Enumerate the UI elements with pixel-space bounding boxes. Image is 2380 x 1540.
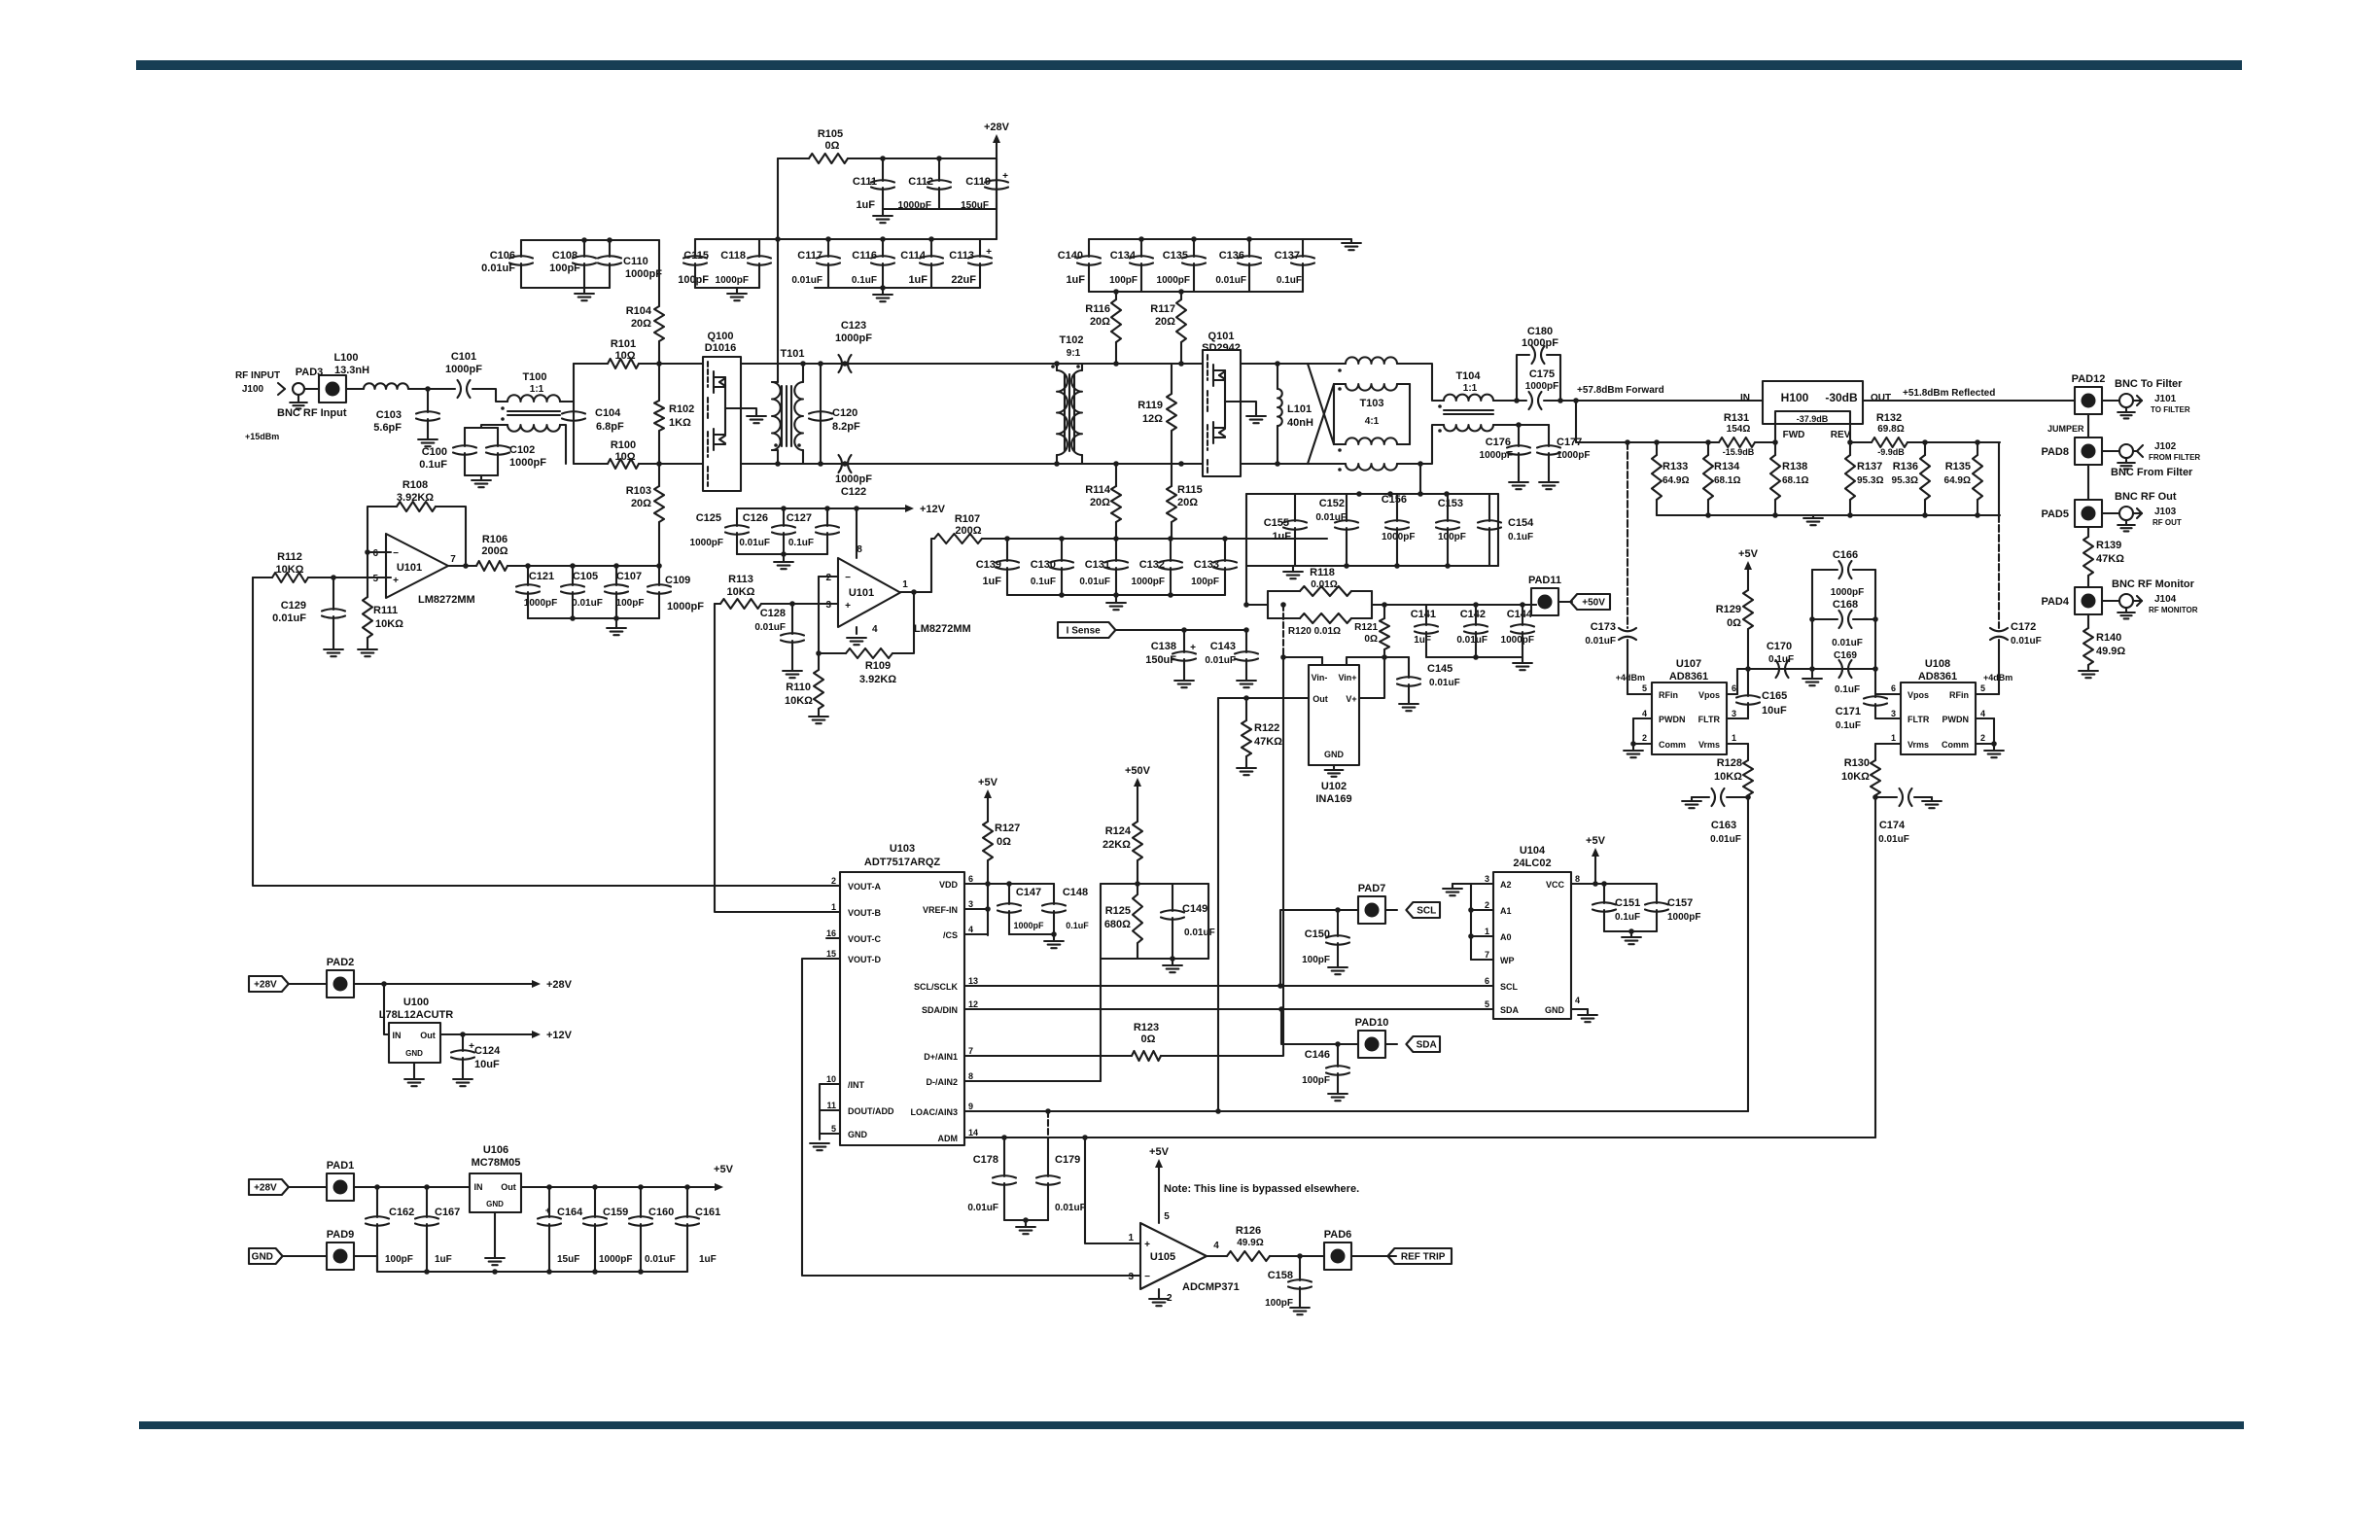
pad PAD7 with SCL flag — [1280, 910, 1358, 986]
svg-text:R104: R104 — [626, 305, 652, 317]
svg-text:20Ω: 20Ω — [1090, 497, 1110, 508]
svg-text:GND: GND — [848, 1130, 868, 1139]
svg-text:+4dBm: +4dBm — [1616, 673, 1645, 682]
svg-text:BNC RF Out: BNC RF Out — [2115, 491, 2177, 503]
svg-text:49.9Ω: 49.9Ω — [2096, 646, 2125, 657]
svg-text:SCL: SCL — [1417, 906, 1436, 917]
svg-text:0.1uF: 0.1uF — [1836, 720, 1861, 731]
svg-text:SCL/SCLK: SCL/SCLK — [914, 982, 959, 992]
wire — [354, 983, 384, 985]
svg-text:R116: R116 — [1085, 303, 1110, 315]
svg-text:6: 6 — [372, 548, 378, 559]
wire main 5V reg line — [354, 1186, 470, 1188]
svg-text:+50V: +50V — [1582, 598, 1605, 609]
svg-text:INA169: INA169 — [1315, 793, 1351, 805]
wire — [1372, 604, 1426, 606]
pad PAD11 — [1531, 604, 1536, 606]
svg-text:+: + — [393, 576, 399, 586]
svg-text:A1: A1 — [1500, 906, 1512, 916]
svg-text:1000pF: 1000pF — [1525, 381, 1558, 392]
svg-text:JUMPER: JUMPER — [2047, 424, 2084, 434]
ground — [1350, 239, 1352, 243]
svg-text:R100: R100 — [611, 439, 636, 451]
svg-text:C153: C153 — [1438, 498, 1463, 509]
svg-text:0Ω: 0Ω — [825, 140, 840, 152]
svg-text:1000pF: 1000pF — [667, 601, 704, 612]
svg-text:C172: C172 — [2011, 621, 2036, 633]
svg-text:-9.9dB: -9.9dB — [1877, 447, 1905, 457]
svg-text:47KΩ: 47KΩ — [2096, 553, 2124, 565]
power +28V arrow — [996, 138, 997, 158]
svg-text:5: 5 — [1485, 999, 1489, 1009]
svg-text:1000pF: 1000pF — [1667, 912, 1700, 923]
svg-text:0Ω: 0Ω — [1141, 1033, 1156, 1045]
wire +50V sense line — [1245, 566, 1247, 605]
svg-text:C101: C101 — [451, 351, 476, 363]
svg-text:OUT: OUT — [1871, 393, 1891, 403]
svg-text:1uF: 1uF — [856, 199, 875, 211]
svg-text:20Ω: 20Ω — [1155, 316, 1175, 328]
svg-text:13: 13 — [968, 976, 978, 986]
svg-text:6: 6 — [1732, 683, 1736, 693]
svg-text:BNC RF Input: BNC RF Input — [277, 407, 347, 419]
svg-text:0.1uF: 0.1uF — [419, 459, 447, 471]
svg-text:64.9Ω: 64.9Ω — [1944, 475, 1971, 486]
svg-text:15uF: 15uF — [557, 1254, 579, 1265]
svg-text:0.1uF: 0.1uF — [1031, 577, 1056, 587]
svg-text:C161: C161 — [695, 1207, 720, 1218]
svg-text:680Ω: 680Ω — [1104, 919, 1131, 930]
ground — [1053, 934, 1055, 941]
svg-text:0.01uF: 0.01uF — [272, 612, 306, 624]
svg-text:VREF-IN: VREF-IN — [923, 905, 958, 915]
svg-text:D+/AIN1: D+/AIN1 — [924, 1052, 958, 1062]
svg-text:47KΩ: 47KΩ — [1254, 736, 1282, 748]
svg-text:C147: C147 — [1016, 887, 1041, 898]
ground — [736, 288, 738, 294]
svg-text:Vrms: Vrms — [1698, 740, 1720, 750]
svg-text:ADT7517ARQZ: ADT7517ARQZ — [864, 857, 941, 868]
wire VREF-IN — [964, 908, 988, 910]
svg-text:ADCMP371: ADCMP371 — [1182, 1281, 1240, 1293]
ground — [1292, 566, 1294, 572]
svg-text:C152: C152 — [1319, 498, 1345, 509]
svg-text:C180: C180 — [1527, 326, 1553, 337]
svg-text:L78L12ACUTR: L78L12ACUTR — [379, 1009, 453, 1021]
wire /CS — [964, 933, 988, 935]
svg-text:DOUT/ADD: DOUT/ADD — [848, 1106, 894, 1116]
svg-text:0.01uF: 0.01uF — [1456, 635, 1487, 646]
svg-text:0.01uF: 0.01uF — [1710, 834, 1741, 845]
svg-text:+: + — [1144, 1240, 1150, 1250]
svg-text:1: 1 — [831, 902, 836, 912]
svg-text:C169: C169 — [1834, 650, 1857, 661]
svg-text:95.3Ω: 95.3Ω — [1892, 475, 1918, 486]
svg-text:3: 3 — [1732, 709, 1736, 718]
svg-text:C149: C149 — [1182, 903, 1207, 915]
wire main line to PAD12 — [1863, 400, 2075, 402]
power +5V comparator — [1158, 1163, 1160, 1223]
svg-text:C171: C171 — [1836, 706, 1861, 717]
svg-text:C123: C123 — [841, 320, 866, 332]
wire PWDN Comm tie to ground — [1633, 717, 1652, 719]
svg-text:RF INPUT: RF INPUT — [235, 370, 280, 381]
wire feedback to pin6 — [367, 551, 386, 553]
svg-text:U108: U108 — [1925, 658, 1950, 670]
svg-text:MC78M05: MC78M05 — [472, 1157, 521, 1169]
svg-text:C157: C157 — [1667, 897, 1693, 909]
ground — [1522, 657, 1523, 663]
svg-text:GND: GND — [486, 1200, 504, 1208]
svg-text:C121: C121 — [529, 571, 554, 582]
svg-text:8: 8 — [968, 1071, 973, 1081]
svg-text:C143: C143 — [1210, 641, 1236, 652]
power +5V VCC — [1571, 883, 1657, 885]
svg-text:4: 4 — [872, 624, 878, 635]
svg-text:3: 3 — [1128, 1272, 1134, 1282]
wire FLTR U108 — [1875, 717, 1901, 719]
svg-text:VOUT-C: VOUT-C — [848, 934, 882, 944]
svg-text:+5V: +5V — [1738, 548, 1759, 560]
svg-text:64.9Ω: 64.9Ω — [1662, 475, 1689, 486]
svg-text:SDA: SDA — [1500, 1005, 1520, 1015]
svg-text:Out: Out — [501, 1182, 516, 1192]
svg-text:PAD10: PAD10 — [1355, 1017, 1389, 1029]
svg-text:C129: C129 — [281, 600, 306, 612]
ground — [465, 474, 498, 476]
svg-text:C145: C145 — [1427, 663, 1452, 675]
top title bar — [136, 60, 2242, 70]
wire R124 divider feed — [1137, 782, 1138, 822]
svg-text:/CS: /CS — [943, 930, 958, 940]
svg-text:0.01uF: 0.01uF — [1184, 927, 1215, 938]
svg-text:LOAC/AIN3: LOAC/AIN3 — [910, 1107, 958, 1117]
svg-text:PAD6: PAD6 — [1324, 1229, 1352, 1241]
svg-text:IN: IN — [393, 1031, 402, 1040]
net flag +28V input PAD2 — [249, 976, 289, 992]
svg-text:C167: C167 — [435, 1207, 460, 1218]
svg-text:IN: IN — [474, 1182, 483, 1192]
svg-text:4: 4 — [1980, 709, 1985, 718]
svg-text:68.1Ω: 68.1Ω — [1782, 475, 1808, 486]
svg-text:PAD1: PAD1 — [327, 1160, 355, 1172]
svg-text:C134: C134 — [1110, 250, 1137, 262]
wire RFin — [1627, 693, 1652, 695]
svg-text:150uF: 150uF — [1145, 654, 1176, 666]
svg-text:1: 1 — [902, 579, 908, 590]
svg-text:BNC From Filter: BNC From Filter — [2111, 467, 2193, 478]
svg-text:T101: T101 — [780, 348, 804, 360]
svg-text:C136: C136 — [1219, 250, 1244, 262]
svg-text:C122: C122 — [841, 486, 866, 498]
svg-text:1000pF: 1000pF — [1501, 635, 1534, 646]
wire — [883, 208, 997, 210]
svg-text:R110: R110 — [786, 682, 811, 693]
svg-text:1000pF: 1000pF — [690, 538, 723, 548]
svg-text:8.2pF: 8.2pF — [832, 421, 860, 433]
svg-text:Vin-: Vin- — [1312, 673, 1328, 682]
svg-text:PAD7: PAD7 — [1358, 883, 1386, 894]
svg-text:A2: A2 — [1500, 880, 1512, 890]
svg-text:VOUT-B: VOUT-B — [848, 908, 882, 918]
svg-text:GND: GND — [405, 1049, 423, 1058]
svg-text:3: 3 — [1485, 874, 1489, 884]
svg-text:J101: J101 — [2154, 394, 2177, 404]
svg-text:+12V: +12V — [546, 1030, 573, 1041]
svg-text:7: 7 — [450, 554, 456, 565]
svg-text:0.01uF: 0.01uF — [1832, 638, 1863, 648]
power +12V arrow — [857, 507, 910, 509]
svg-text:7: 7 — [1485, 950, 1489, 960]
wire pin2 — [819, 576, 838, 577]
svg-text:1000pF: 1000pF — [1831, 587, 1864, 598]
svg-text:1uF: 1uF — [699, 1254, 717, 1265]
svg-text:AD8361: AD8361 — [1669, 671, 1708, 682]
svg-text:U101: U101 — [849, 587, 874, 599]
svg-text:FLTR: FLTR — [1907, 715, 1930, 724]
svg-text:1uF: 1uF — [982, 576, 1001, 587]
svg-text:R108: R108 — [402, 479, 428, 491]
svg-text:R131: R131 — [1724, 412, 1749, 424]
svg-text:RFin: RFin — [1949, 690, 1969, 700]
svg-text:BNC To Filter: BNC To Filter — [2115, 378, 2183, 390]
pad PAD12 — [2075, 387, 2102, 414]
svg-text:14: 14 — [968, 1128, 978, 1137]
wire vin- drop — [1282, 605, 1284, 657]
svg-text:11: 11 — [826, 1101, 836, 1110]
svg-text:10KΩ: 10KΩ — [727, 586, 755, 598]
wire U106 out to +5V — [521, 1186, 700, 1188]
wire SCL bus — [964, 985, 1493, 987]
net flag I Sense — [1058, 622, 1115, 638]
svg-text:200Ω: 200Ω — [481, 545, 507, 557]
ground U105 — [1158, 1289, 1160, 1299]
svg-text:C105: C105 — [573, 571, 598, 582]
svg-text:−: − — [845, 573, 851, 583]
svg-text:R109: R109 — [865, 660, 891, 672]
svg-text:10uF: 10uF — [1762, 705, 1787, 717]
pad PAD6 — [1324, 1242, 1351, 1270]
net flag +50V — [1570, 594, 1610, 610]
svg-text:D-/AIN2: D-/AIN2 — [926, 1077, 958, 1087]
svg-text:+5V: +5V — [1586, 835, 1606, 847]
svg-text:T103: T103 — [1359, 398, 1383, 409]
svg-text:REF TRIP: REF TRIP — [1401, 1252, 1446, 1263]
ground U106 — [494, 1212, 496, 1258]
power +5V U107 — [1747, 565, 1749, 590]
svg-text:-37.9dB: -37.9dB — [1797, 414, 1829, 424]
svg-text:R113: R113 — [728, 574, 753, 585]
svg-text:GND: GND — [252, 1252, 273, 1263]
svg-text:+28V: +28V — [546, 979, 573, 991]
svg-text:100pF: 100pF — [1302, 955, 1330, 965]
svg-text:16: 16 — [826, 928, 836, 938]
power +28V arrow out — [384, 983, 537, 985]
svg-text:C114: C114 — [900, 250, 927, 262]
ground — [1812, 515, 1814, 518]
wire SDA bus — [964, 1008, 1493, 1010]
ground — [882, 209, 884, 216]
svg-text:R127: R127 — [995, 822, 1020, 834]
svg-text:4: 4 — [968, 925, 973, 934]
svg-text:U103: U103 — [890, 843, 915, 855]
wire Vpos U108 — [1875, 669, 1901, 694]
svg-text:C158: C158 — [1268, 1270, 1293, 1281]
svg-text:40nH: 40nH — [1287, 417, 1313, 429]
svg-text:-15.9dB: -15.9dB — [1723, 447, 1755, 457]
svg-text:SDA: SDA — [1417, 1040, 1437, 1051]
svg-text:C127: C127 — [787, 512, 812, 524]
net flag GND PAD9 — [249, 1248, 283, 1264]
wire + input from ADM — [1085, 1137, 1140, 1243]
svg-text:RF OUT: RF OUT — [2152, 518, 2182, 527]
svg-text:D1016: D1016 — [705, 342, 736, 354]
svg-text:V+: V+ — [1346, 694, 1356, 704]
svg-text:C174: C174 — [1879, 820, 1906, 831]
svg-text:0.1uF: 0.1uF — [1066, 921, 1089, 930]
wire VOUT-D to comparator — [802, 959, 1140, 1276]
wire ADM line — [964, 1137, 1875, 1138]
svg-text:R112: R112 — [277, 551, 302, 563]
wire Out down to LOAC line — [1217, 698, 1219, 1111]
svg-text:1000pF: 1000pF — [835, 332, 872, 344]
wire ground rail — [354, 1256, 687, 1272]
wire LOAC/AIN3 line — [964, 1110, 1748, 1112]
svg-text:LM8272MM: LM8272MM — [914, 623, 971, 635]
svg-text:R111: R111 — [373, 605, 398, 616]
svg-text:T100: T100 — [522, 371, 546, 383]
wire — [560, 401, 574, 402]
svg-text:C141: C141 — [1411, 609, 1436, 620]
wire — [1057, 363, 1203, 365]
svg-text:5: 5 — [372, 574, 378, 584]
svg-text:+28V: +28V — [254, 980, 277, 991]
wire vin+ from R121 — [1347, 656, 1384, 658]
svg-text:1KΩ: 1KΩ — [669, 417, 691, 429]
svg-text:C156: C156 — [1382, 494, 1407, 506]
wire — [1241, 363, 1308, 365]
svg-text:0.01uF: 0.01uF — [1215, 275, 1246, 286]
svg-text:Comm: Comm — [1942, 740, 1969, 750]
wire main top line — [702, 363, 704, 365]
wire D+/AIN1 with R123 — [964, 1055, 1132, 1057]
svg-text:GND: GND — [1545, 1005, 1565, 1015]
wire — [472, 389, 507, 402]
svg-text:U104: U104 — [1520, 845, 1546, 857]
svg-text:C151: C151 — [1615, 897, 1640, 909]
svg-text:C125: C125 — [696, 512, 721, 524]
svg-text:1000pF: 1000pF — [1480, 450, 1513, 461]
svg-text:Q100: Q100 — [708, 331, 734, 342]
ground — [1115, 595, 1117, 603]
wire — [2087, 465, 2089, 500]
svg-text:R138: R138 — [1782, 461, 1807, 472]
IC U102 INA169 — [1309, 665, 1359, 765]
svg-text:15: 15 — [826, 949, 836, 959]
svg-text:PAD4: PAD4 — [2041, 596, 2069, 608]
svg-text:0.01uF: 0.01uF — [1079, 577, 1110, 587]
ground — [882, 288, 884, 295]
svg-text:Vrms: Vrms — [1907, 740, 1929, 750]
svg-text:+: + — [986, 247, 992, 258]
svg-text:22KΩ: 22KΩ — [1102, 839, 1131, 851]
svg-text:U101: U101 — [397, 562, 422, 574]
svg-text:1000pF: 1000pF — [1382, 532, 1415, 542]
op-amp U105 ADCMP371 — [1140, 1223, 1207, 1289]
svg-text:1:1: 1:1 — [530, 384, 544, 395]
svg-text:1000pF: 1000pF — [625, 268, 662, 280]
svg-text:AD8361: AD8361 — [1918, 671, 1957, 682]
svg-text:U105: U105 — [1150, 1251, 1175, 1263]
svg-text:J104: J104 — [2154, 594, 2177, 605]
svg-text:0.1uF: 0.1uF — [852, 275, 877, 286]
svg-text:C117: C117 — [797, 250, 822, 262]
svg-text:Vpos: Vpos — [1907, 690, 1929, 700]
svg-text:3.92KΩ: 3.92KΩ — [859, 674, 896, 685]
svg-text:4: 4 — [1575, 996, 1580, 1005]
svg-text:100pF: 100pF — [385, 1254, 413, 1265]
svg-text:C100: C100 — [422, 446, 447, 458]
svg-text:C140: C140 — [1058, 250, 1083, 262]
svg-text:95.3Ω: 95.3Ω — [1857, 475, 1883, 486]
svg-text:1000pF: 1000pF — [599, 1254, 632, 1265]
svg-text:1uF: 1uF — [1066, 274, 1085, 286]
wire VOUT-B feedback from R113 — [715, 604, 840, 912]
svg-text:R122: R122 — [1254, 722, 1279, 734]
svg-text:3: 3 — [1891, 709, 1896, 718]
svg-text:1000pF: 1000pF — [445, 364, 482, 375]
svg-text:C170: C170 — [1767, 641, 1792, 652]
svg-text:PAD11: PAD11 — [1528, 575, 1561, 586]
wire U108 Vrms to R130 — [1875, 743, 1901, 745]
connector J102 BNC from filter — [2102, 450, 2119, 452]
svg-text:R106: R106 — [482, 534, 507, 545]
svg-text:C154: C154 — [1508, 517, 1534, 529]
svg-text:C103: C103 — [376, 409, 402, 421]
svg-text:WP: WP — [1500, 956, 1515, 965]
svg-text:VDD: VDD — [939, 880, 959, 890]
wire output — [448, 565, 476, 567]
net flag REF TRIP — [1351, 1255, 1396, 1257]
svg-text:1: 1 — [1128, 1233, 1134, 1243]
svg-text:1: 1 — [1891, 733, 1896, 743]
svg-text:A0: A0 — [1500, 932, 1512, 942]
svg-text:0.01uF: 0.01uF — [1205, 655, 1236, 666]
svg-text:+5V: +5V — [978, 777, 998, 788]
svg-text:0.1uF: 0.1uF — [1835, 684, 1860, 695]
svg-text:68.1Ω: 68.1Ω — [1714, 475, 1740, 486]
svg-text:8: 8 — [1575, 874, 1580, 884]
svg-text:12: 12 — [968, 999, 978, 1009]
svg-text:20Ω: 20Ω — [1177, 497, 1198, 508]
ground — [1172, 959, 1173, 965]
svg-text:C148: C148 — [1063, 887, 1088, 898]
pad PAD5 — [2075, 500, 2102, 527]
svg-text:24LC02: 24LC02 — [1513, 857, 1551, 869]
pad PAD9 — [327, 1242, 354, 1270]
svg-text:C113: C113 — [949, 250, 974, 262]
svg-text:C106: C106 — [490, 250, 515, 262]
ground Q101 source — [1225, 402, 1256, 416]
svg-text:C102: C102 — [509, 444, 535, 456]
svg-text:VCC: VCC — [1546, 880, 1565, 890]
svg-text:R103: R103 — [626, 485, 651, 497]
svg-text:J103: J103 — [2154, 507, 2177, 517]
svg-text:7: 7 — [968, 1046, 973, 1056]
wire — [346, 388, 364, 390]
svg-text:C178: C178 — [973, 1154, 998, 1166]
svg-text:I Sense: I Sense — [1067, 626, 1101, 637]
